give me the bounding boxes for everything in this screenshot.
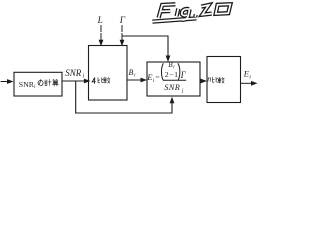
svg-text:Γ: Γ: [180, 70, 187, 80]
svg-text:=: =: [155, 72, 159, 81]
svg-text:E: E: [243, 70, 249, 79]
node: top input Gamma: [119, 16, 126, 46]
wire: formula box to n comparison box: [200, 79, 207, 84]
block: n comparison box: [207, 57, 241, 103]
svg-text:n: n: [207, 75, 211, 84]
wire: Gamma branch to formula box top: [122, 36, 170, 62]
svg-text:L: L: [97, 16, 103, 26]
feedback branch: SNRi down, along bottom, up into formula box: [76, 81, 175, 113]
wire SNRi: box1 to box2 with label: [62, 68, 90, 84]
figure label Fig.20: [152, 4, 230, 21]
svg-text:–: –: [169, 69, 174, 78]
node: top input L: [97, 16, 104, 46]
block: L comparison box: [89, 46, 128, 101]
svg-text:SNR: SNR: [65, 68, 82, 78]
svg-text:SNR: SNR: [164, 83, 180, 92]
svg-text:Γ: Γ: [119, 16, 126, 26]
block: SNRi calculation box: [14, 72, 62, 96]
input wire into SNRi box: [1, 79, 14, 84]
block: formula box Ei: [146, 61, 200, 96]
svg-text:SNR: SNR: [19, 80, 35, 89]
svg-text:1: 1: [174, 70, 178, 79]
wire Bi: box2 to formula box with label: [127, 68, 147, 82]
output wire Ei: [241, 70, 258, 86]
svg-text:2: 2: [165, 70, 169, 79]
svg-text:B: B: [129, 68, 134, 77]
